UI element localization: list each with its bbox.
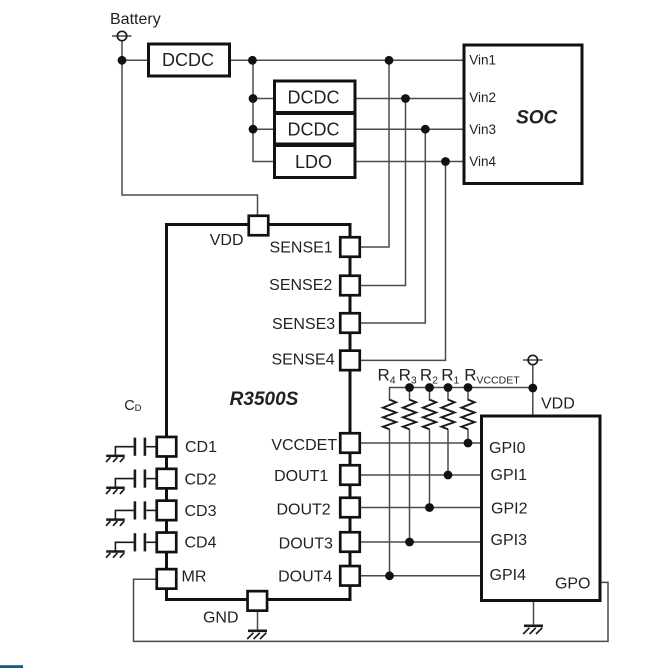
svg-text:R3500S: R3500S xyxy=(230,389,299,410)
wire VDD pull-up bus xyxy=(390,388,533,401)
resistor R4 xyxy=(383,400,396,430)
ground below GND pin xyxy=(247,631,267,639)
wire R2 bottom to GPI2 line xyxy=(429,429,431,507)
pin DOUT1 xyxy=(274,465,360,485)
svg-text:Vin2: Vin2 xyxy=(469,90,496,105)
capacitor CD4 xyxy=(115,533,156,551)
svg-text:VCCDET: VCCDET xyxy=(271,437,337,454)
resistor R3 xyxy=(403,400,416,430)
wire DOUT1 to GPI1 xyxy=(361,474,482,476)
svg-text:DOUT1: DOUT1 xyxy=(274,468,328,485)
wire R1 top stub xyxy=(447,388,449,401)
capacitor CD3 xyxy=(115,501,156,519)
regulator DCDC 3 xyxy=(275,114,356,145)
wire SENSE2 to Vin2 xyxy=(361,99,406,286)
wire Vin4 net: LDO out to SOC Vin4 xyxy=(355,161,464,163)
svg-text:DCDC: DCDC xyxy=(162,50,214,70)
junction node SENSE2/Vin2 xyxy=(401,94,410,103)
wire R3 bottom to GPI3 line xyxy=(409,429,411,542)
regulator DCDC 2 xyxy=(275,81,356,113)
svg-text:Battery: Battery xyxy=(110,11,161,28)
junction node SENSE1/Vin1 xyxy=(385,56,394,65)
junction node R4/GPI4 xyxy=(385,571,394,580)
pin DOUT4 xyxy=(278,566,360,586)
svg-text:GPI2: GPI2 xyxy=(491,500,528,517)
pin SENSE1 xyxy=(270,237,360,257)
svg-text:CD: CD xyxy=(124,398,141,414)
junction node SENSE4/Vin4 xyxy=(441,157,450,166)
wire SENSE4 to Vin4 xyxy=(361,162,446,361)
svg-text:GPI4: GPI4 xyxy=(490,567,527,584)
capacitor CD2 xyxy=(115,470,156,488)
junction node R2/GPI2 xyxy=(425,503,434,512)
junction node R3 bus xyxy=(405,383,414,392)
pin SENSE3 xyxy=(272,313,360,333)
svg-text:R4: R4 xyxy=(378,366,396,387)
ground capacitor CD3 xyxy=(106,520,125,526)
svg-text:CD3: CD3 xyxy=(185,503,217,520)
svg-text:VDD: VDD xyxy=(541,396,575,413)
junction node battery xyxy=(118,56,127,65)
wire SENSE1 to Vin1 xyxy=(361,60,390,247)
wire R2 top stub xyxy=(429,388,431,401)
svg-text:Vin1: Vin1 xyxy=(469,53,496,68)
battery terminal symbol xyxy=(117,31,126,40)
ground capacitor CD2 xyxy=(106,488,125,494)
svg-text:CD2: CD2 xyxy=(185,471,217,488)
wire VCCDET to GPI0 xyxy=(361,442,482,444)
svg-text:DCDC: DCDC xyxy=(288,88,340,108)
pin CD4 xyxy=(157,533,217,553)
wire DOUT3 to GPI3 xyxy=(361,541,482,543)
page footer blue bar xyxy=(0,665,23,668)
pin VCCDET xyxy=(271,433,359,454)
junction node R3/GPI3 xyxy=(405,538,414,547)
wire VDD terminal drop xyxy=(523,360,543,416)
svg-text:CD4: CD4 xyxy=(185,535,217,552)
svg-text:LDO: LDO xyxy=(295,152,332,172)
resistor R2 xyxy=(423,400,436,430)
pin CD1 xyxy=(157,437,217,457)
wire RVCCDET top stub xyxy=(467,388,469,401)
IC SOC xyxy=(464,45,582,184)
wire Vin3 net: DCDC3 out to SOC Vin3 xyxy=(355,128,464,130)
capacitor CD1 xyxy=(115,438,156,456)
junction node RVCCDET/GPI0 xyxy=(464,439,473,448)
junction node RVCCDET bus xyxy=(464,383,473,392)
regulator LDO xyxy=(275,146,356,178)
svg-text:SOC: SOC xyxy=(516,107,557,128)
resistor RVCCDET xyxy=(461,400,474,430)
pin VDD (top) xyxy=(210,216,269,249)
pin DOUT2 xyxy=(276,498,359,519)
junction node R1 bus xyxy=(444,383,453,392)
junction node Vin1 branch xyxy=(248,56,257,65)
VDD terminal symbol xyxy=(528,355,537,364)
pin CD2 xyxy=(157,469,217,489)
svg-text:CD1: CD1 xyxy=(185,439,217,456)
pin SENSE2 xyxy=(269,276,360,296)
svg-text:RVCCDET: RVCCDET xyxy=(464,366,520,387)
svg-text:DOUT2: DOUT2 xyxy=(276,501,330,518)
ground below GPI box xyxy=(523,626,543,634)
wire RVCCDET bottom to GPI0 line xyxy=(467,429,469,443)
wire R1 bottom to GPI1 line xyxy=(447,429,449,475)
svg-text:SENSE1: SENSE1 xyxy=(270,239,333,256)
svg-text:DCDC: DCDC xyxy=(288,120,340,140)
svg-text:GND: GND xyxy=(203,610,239,627)
svg-text:SENSE4: SENSE4 xyxy=(271,352,334,369)
wire DOUT2 to GPI2 xyxy=(361,507,482,509)
junction node DCDC3 input xyxy=(249,125,258,134)
svg-text:GPO: GPO xyxy=(555,576,591,593)
junction node VDD bus xyxy=(528,384,537,393)
pin DOUT3 xyxy=(279,532,360,552)
pin SENSE4 xyxy=(271,351,359,371)
svg-text:SENSE3: SENSE3 xyxy=(272,316,335,333)
IC R3500S body xyxy=(167,225,351,600)
wire battery drop to VDD pin xyxy=(122,41,258,215)
wire Vin2 net: DCDC2 out to SOC Vin2 xyxy=(355,98,464,100)
svg-text:VDD: VDD xyxy=(210,232,244,249)
svg-text:GPI0: GPI0 xyxy=(489,440,526,457)
svg-text:Vin4: Vin4 xyxy=(469,154,496,169)
svg-text:SENSE2: SENSE2 xyxy=(269,277,332,294)
junction node DCDC2 input xyxy=(249,94,258,103)
regulator DCDC 1 xyxy=(149,44,230,76)
resistor R1 xyxy=(441,400,454,430)
wire R3 top stub xyxy=(409,388,411,401)
IC GPI box xyxy=(482,416,601,601)
svg-text:DOUT4: DOUT4 xyxy=(278,568,332,585)
wire battery to DCDC input xyxy=(112,36,149,60)
svg-text:R1: R1 xyxy=(441,366,459,387)
wire GPO loop to MR xyxy=(134,579,609,641)
wire GND pin to ground xyxy=(257,611,259,631)
junction node SENSE3/Vin3 xyxy=(421,125,430,134)
ground capacitor CD4 xyxy=(106,552,125,558)
wire Vin1 net: DCDC out to SOC Vin1 xyxy=(230,59,465,61)
pin GND (bottom) xyxy=(203,591,267,626)
wire SENSE3 to Vin3 xyxy=(361,129,426,323)
wire branch down from Vin1 to regulator inputs xyxy=(253,60,275,161)
ground capacitor CD1 xyxy=(106,456,125,462)
wire GPI box to ground xyxy=(533,602,535,626)
pin CD3 xyxy=(157,501,217,521)
wire R4 bottom to GPI4 line xyxy=(389,429,391,576)
svg-text:GPI1: GPI1 xyxy=(491,467,528,484)
junction node R1/GPI1 xyxy=(444,471,453,480)
pin MR xyxy=(157,569,207,589)
svg-text:GPI3: GPI3 xyxy=(491,532,528,549)
svg-text:DOUT3: DOUT3 xyxy=(279,535,333,552)
svg-text:Vin3: Vin3 xyxy=(469,122,496,137)
junction node R2 bus xyxy=(425,383,434,392)
svg-text:MR: MR xyxy=(182,569,207,586)
wire DOUT4 to GPI4 xyxy=(361,575,482,577)
